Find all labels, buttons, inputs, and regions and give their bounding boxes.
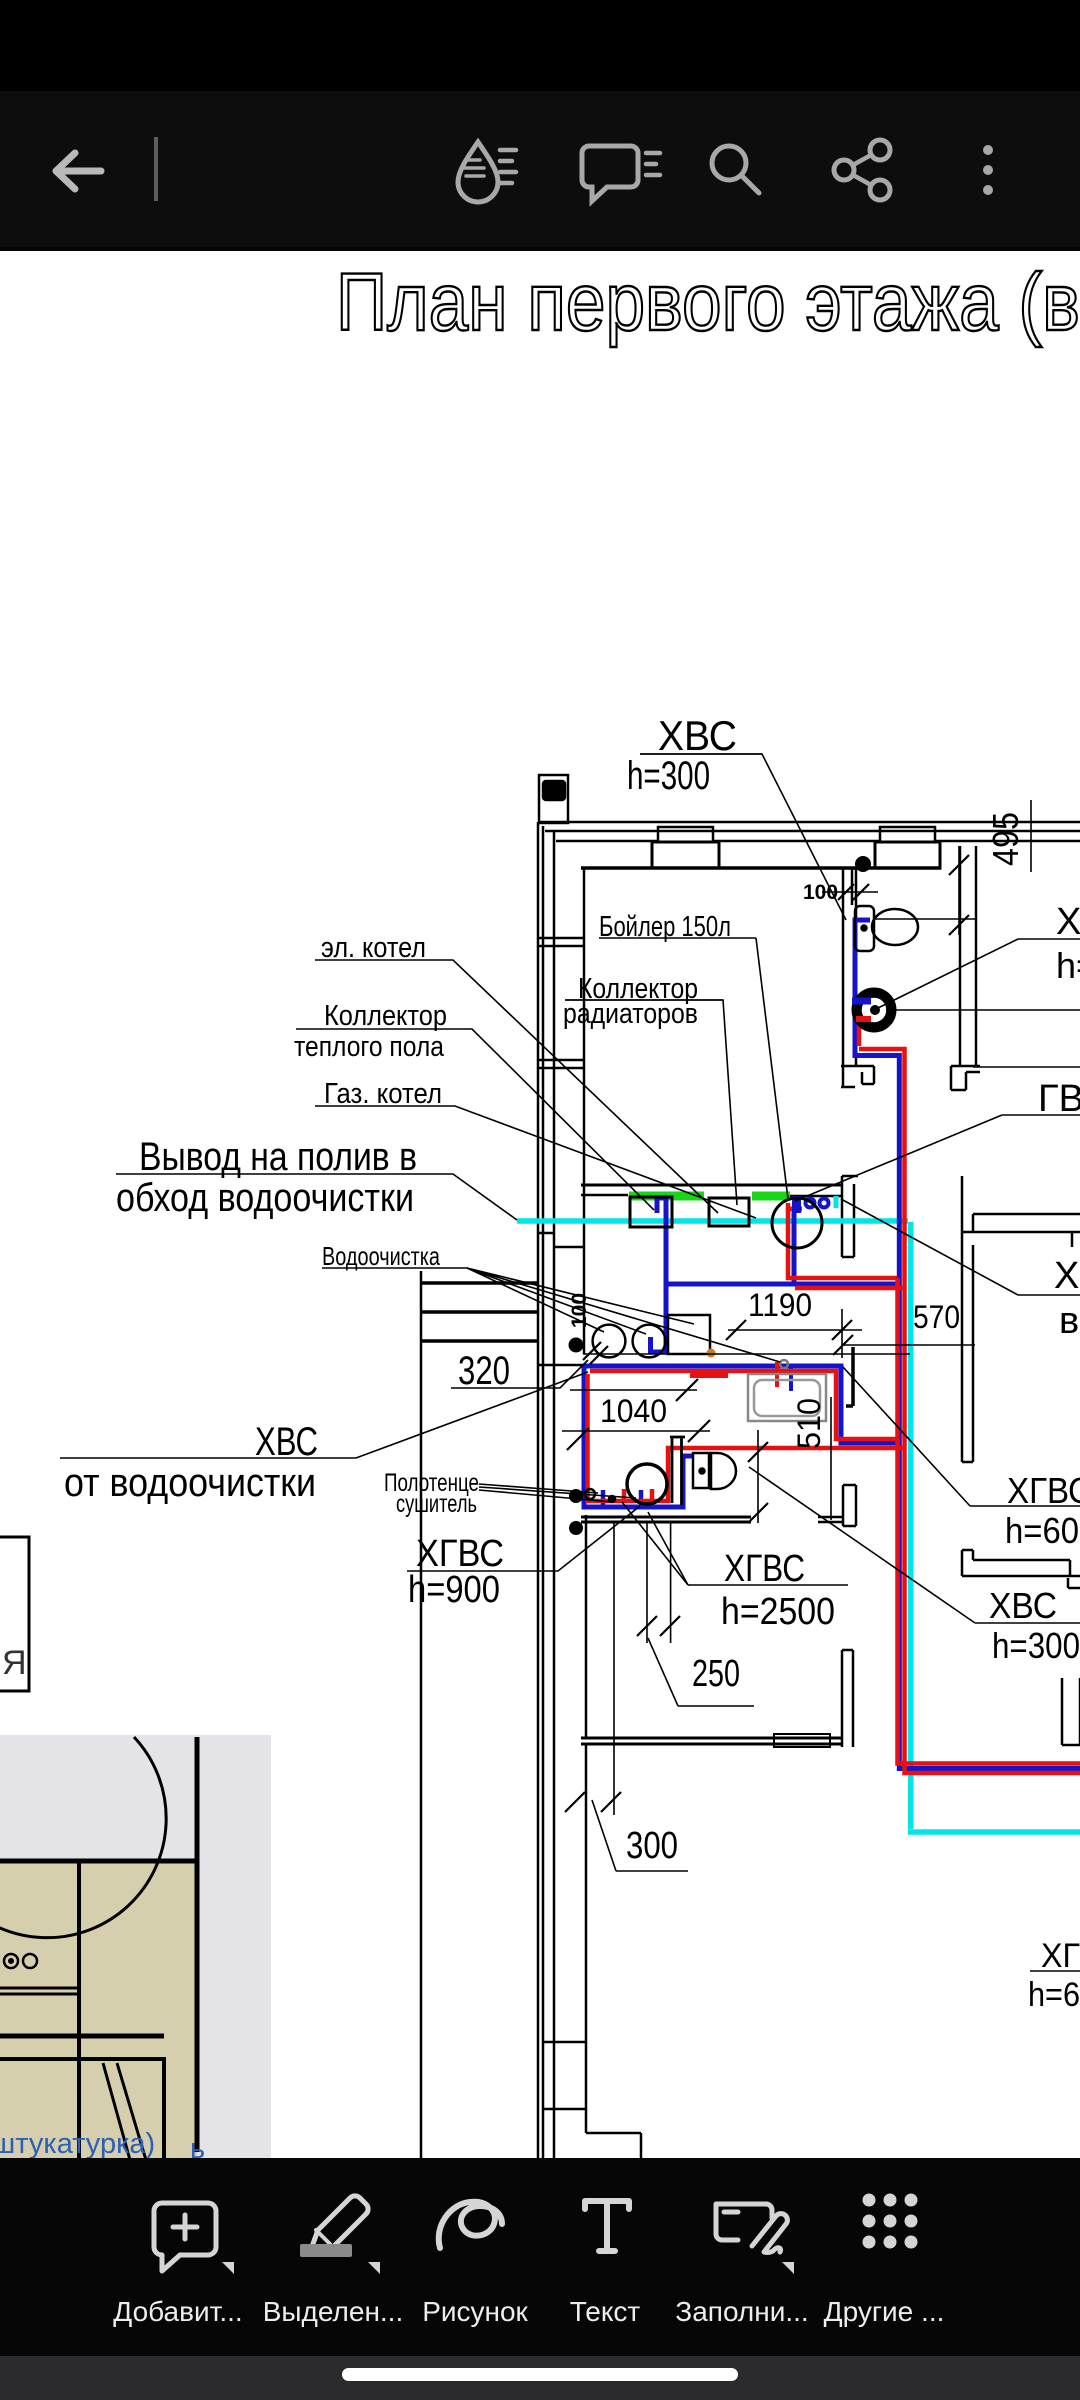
svg-text:h=60: h=60	[1005, 1510, 1079, 1551]
page indicator box	[0, 1537, 29, 1691]
svg-text:ХВС: ХВС	[255, 1420, 318, 1464]
red hook at collector	[789, 1207, 802, 1212]
leaders vodoochistka	[322, 1268, 780, 1362]
svg-text:ГВ: ГВ	[1038, 1078, 1080, 1120]
water filters	[593, 1315, 710, 1357]
bathroom loop	[584, 1366, 902, 1443]
dim 495 vertical	[959, 800, 1031, 935]
svg-text:Я: Я	[2, 1644, 27, 1682]
upper toilet	[855, 906, 918, 951]
towel stubs	[603, 1490, 641, 1507]
bottom toolbar	[0, 2158, 1080, 2356]
collector boxes	[630, 1197, 749, 1227]
leader gaz kotel	[315, 1106, 756, 1218]
leader el kotel	[315, 960, 718, 1213]
thumbnail page bottom-left	[0, 1735, 271, 2165]
thumbnail thick line	[0, 2034, 164, 2039]
blue cold water pipes	[584, 920, 1080, 1769]
svg-text:h=2500: h=2500	[721, 1591, 835, 1633]
lower room right wall	[842, 1650, 853, 1747]
bathroom hot loop	[590, 1371, 898, 1439]
upper bathroom right wall	[960, 846, 976, 1066]
partition wall foot	[841, 1066, 874, 1087]
drawing labels	[64, 712, 1080, 2014]
floor line y1354	[583, 1353, 910, 1355]
right room vertical wall	[962, 1176, 1072, 1462]
leader right X h top	[878, 939, 1080, 1008]
leader lines	[60, 754, 1080, 1871]
svg-text:теплого пола: теплого пола	[294, 1031, 445, 1063]
leader 320	[451, 1360, 588, 1388]
toilet nook partition wall	[670, 1437, 685, 1505]
svg-text:Водоочистка: Водоочистка	[322, 1241, 440, 1271]
svg-text:100: 100	[568, 1293, 591, 1328]
status bar	[0, 0, 1080, 91]
svg-text:h=900: h=900	[408, 1569, 500, 1611]
blue boiler stub	[852, 998, 871, 1005]
thumbnail hatched box	[79, 2059, 164, 2160]
radiator bar	[690, 1370, 728, 1378]
lower room bottom wall	[581, 1738, 843, 1744]
leader horizontal from ring	[886, 1009, 1080, 1011]
svg-text:570: 570	[913, 1299, 960, 1335]
leader XVC h300 right	[749, 1467, 1080, 1623]
bottom left wall details	[543, 2042, 641, 2158]
thumbnail floor line	[0, 1859, 197, 1864]
thumbnail double line	[0, 1988, 79, 1994]
svg-text:h=300: h=300	[992, 1625, 1080, 1666]
svg-text:Х: Х	[1054, 1255, 1079, 1297]
svg-text:Добавит...: Добавит...	[113, 2296, 242, 2327]
chimney box top-left	[539, 775, 568, 823]
collector drop	[651, 1198, 667, 1352]
leader GV	[795, 1115, 1080, 1201]
towel stubs	[624, 1489, 652, 1501]
left wall joint ticks	[538, 938, 584, 2158]
dim line 1190	[728, 1329, 862, 1331]
svg-text:h=300: h=300	[627, 754, 710, 798]
svg-text:в: в	[1059, 1300, 1079, 1342]
leader XGVS h2500	[622, 1502, 848, 1585]
top wall second line	[545, 830, 1080, 833]
leader vyvod na poliv	[116, 1174, 517, 1220]
svg-text:250: 250	[692, 1653, 740, 1695]
svg-text:1190: 1190	[748, 1287, 812, 1323]
svg-text:Заполни...: Заполни...	[675, 2296, 808, 2327]
svg-text:радиаторов: радиаторов	[563, 998, 698, 1030]
dim lines 1040	[562, 1390, 710, 1431]
collector circle riser	[788, 1203, 898, 1278]
left outer wall lines	[538, 822, 554, 2158]
wall stub right of collectors	[842, 1176, 858, 1257]
label underlines	[565, 754, 1080, 1971]
svg-text:Другие ...: Другие ...	[824, 2296, 945, 2327]
threshold notch	[774, 1734, 830, 1747]
leaders polotence	[479, 1484, 636, 1502]
leader boiler150	[756, 938, 788, 1199]
right wall foot	[951, 1066, 980, 1090]
window block 2 upper	[880, 827, 935, 842]
dim 100 line top	[822, 891, 878, 893]
red hot water pipes	[588, 1023, 1080, 1773]
svg-text:Выделен...: Выделен...	[263, 2296, 404, 2327]
svg-text:эл. котел: эл. котел	[321, 932, 426, 964]
svg-text:Текст: Текст	[570, 2296, 641, 2327]
svg-text:Вывод на полив в: Вывод на полив в	[139, 1135, 417, 1179]
thumbnail main wall vertical	[195, 1737, 200, 2152]
svg-text:штукатурка): штукатурка)	[0, 2128, 155, 2160]
leader horizontal y1067	[973, 1066, 1080, 1068]
cyan stub at collector	[834, 1196, 839, 1208]
svg-text:100: 100	[803, 881, 838, 904]
sink stub	[775, 1362, 779, 1387]
svg-text:495: 495	[985, 812, 1026, 866]
top wall inner thick line	[581, 866, 941, 870]
thumbnail inner vertical	[77, 1862, 81, 2160]
towel blue ring	[585, 1489, 595, 1499]
top wall inner segments	[556, 840, 1080, 843]
upper bathroom partition wall	[843, 869, 856, 1066]
leader XGVS h900	[407, 1506, 640, 1571]
thumbnail door arc	[0, 1737, 166, 1938]
leader XGVS h60	[843, 1367, 1080, 1506]
svg-text:320: 320	[458, 1349, 510, 1393]
dim line toilet-wall	[874, 918, 976, 920]
svg-text:Газ. котел: Газ. котел	[324, 1078, 442, 1110]
boiler room left inner wall	[554, 868, 584, 1354]
gas boiler circle	[772, 1198, 822, 1248]
leader X v	[841, 1199, 1080, 1295]
window block 2 lower	[875, 842, 940, 868]
svg-text:h=: h=	[1056, 945, 1080, 986]
towel dryer circle	[627, 1464, 667, 1504]
dimension ticks	[565, 855, 969, 1812]
leader 250	[648, 1638, 754, 1706]
leader 300	[592, 1800, 688, 1871]
leader kollektor tp	[296, 1029, 654, 1210]
green collector bars	[629, 1192, 790, 1201]
filter riser dot	[569, 1338, 584, 1353]
towel black dots	[569, 1489, 583, 1503]
riser dot above toilet	[855, 856, 871, 872]
svg-text:1040: 1040	[600, 1393, 667, 1429]
svg-text:Рисунок: Рисунок	[422, 2296, 528, 2327]
svg-text:ХВС: ХВС	[989, 1585, 1057, 1626]
svg-text:510: 510	[791, 1398, 827, 1449]
collector circle drop	[792, 1212, 797, 1284]
porch steps left	[420, 1271, 423, 2158]
hot riser ring	[853, 989, 896, 1032]
svg-text:Коллектор: Коллектор	[324, 1000, 447, 1032]
svg-text:сушитель: сушитель	[396, 1490, 477, 1518]
cyan irrigation annotation line	[517, 1196, 1080, 1832]
leader XVC h300 top	[640, 754, 846, 920]
red boiler stub	[856, 1016, 871, 1022]
lower right small room wall	[1062, 1678, 1080, 1745]
right wall step lower	[962, 1550, 1080, 1588]
horizontal run to circle	[666, 1282, 902, 1287]
window block 1 upper	[658, 827, 713, 842]
svg-text:h=6: h=6	[1028, 1976, 1080, 2014]
window block 1 lower	[652, 842, 719, 868]
svg-text:300: 300	[626, 1825, 678, 1867]
lower room left inner wall	[585, 1515, 588, 1738]
svg-text:План первого этажа (в: План первого этажа (в	[336, 257, 1080, 348]
sink	[748, 1360, 826, 1421]
leader kollektor radiatorov	[565, 1000, 737, 1205]
boiler room bottom wall	[581, 1184, 841, 1187]
orange dot	[707, 1349, 716, 1358]
lower bathroom right upper wall L	[843, 1485, 856, 1526]
lower toilet	[609, 1453, 736, 1502]
svg-text:ХВС: ХВС	[658, 712, 737, 759]
svg-text:обход водоочистки: обход водоочистки	[116, 1176, 414, 1220]
app toolbar	[0, 91, 1080, 247]
svg-text:ХГВС: ХГВС	[724, 1548, 805, 1590]
svg-text:от водоочистки: от водоочистки	[64, 1461, 316, 1505]
top wall outer line	[539, 821, 1080, 824]
svg-text:ХГВС: ХГВС	[1007, 1470, 1080, 1511]
sink stub	[789, 1366, 793, 1391]
boiler riser to right run	[857, 1023, 862, 1046]
extension lines	[614, 1309, 842, 1815]
toilet riser down right side	[855, 920, 1080, 1769]
collector trio: blue rect and rings	[792, 1196, 829, 1213]
right room wall band	[962, 1214, 1080, 1232]
lower bathroom top wall	[581, 1517, 751, 1522]
thumbnail valve symbols	[4, 1954, 18, 1968]
leader XVC ot vodoochistki	[60, 1372, 588, 1458]
svg-text:ХГ: ХГ	[1041, 1937, 1080, 1975]
svg-text:Х: Х	[1056, 901, 1080, 943]
thin line y1345	[843, 1344, 975, 1346]
